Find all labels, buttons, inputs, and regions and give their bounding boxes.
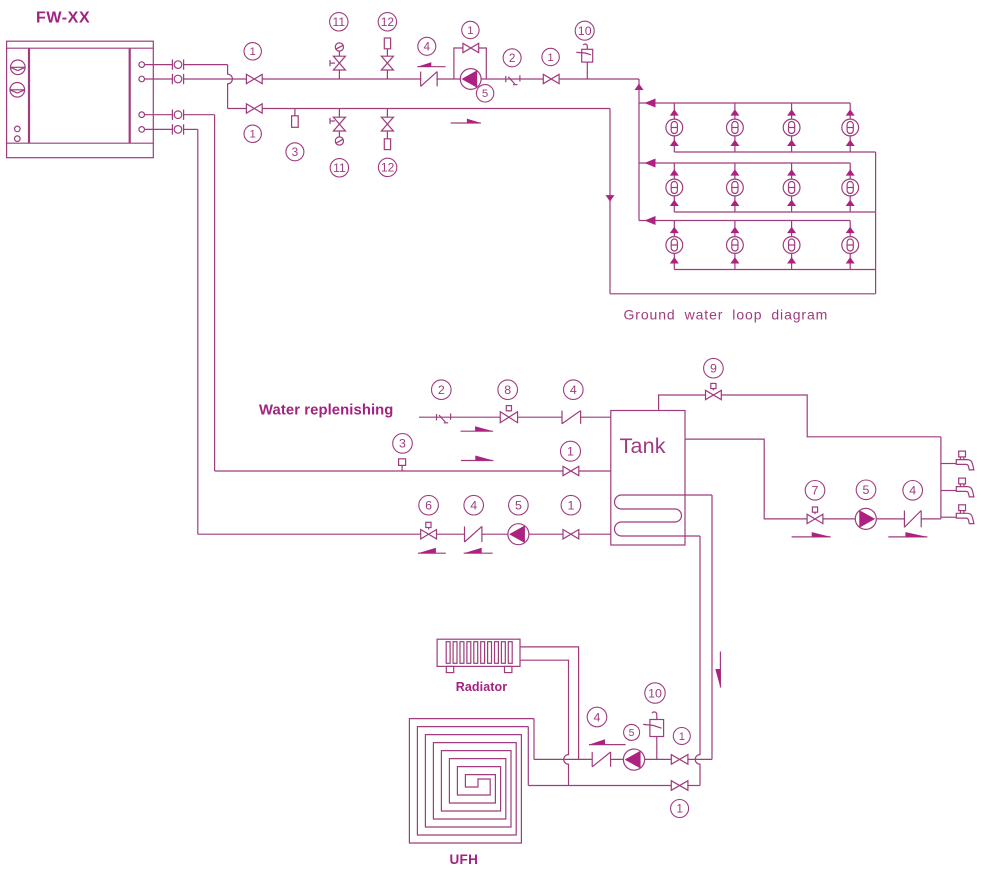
label 10 top	[575, 21, 594, 40]
valve 1 on upper pipe	[246, 74, 262, 83]
borehole heat exchanger row 2 col 3	[783, 163, 800, 212]
svg-text:1: 1	[467, 25, 473, 37]
valve 1 on lower pipe	[246, 104, 262, 113]
label 1 pump pipe	[561, 495, 581, 515]
svg-text:11: 11	[333, 15, 346, 29]
motorized valve 6	[421, 522, 437, 539]
borehole heat exchanger row 2 col 2	[727, 163, 744, 212]
label 2 replenishing	[432, 380, 452, 400]
flow arrow right on sensor pipe	[461, 456, 493, 461]
check valve 4 replenishing	[562, 411, 581, 424]
floor supply pipe y=759.4	[534, 758, 712, 760]
ground loop row 1 collector pipe	[674, 151, 875, 153]
flexible joint 2 on top pipe	[506, 75, 520, 84]
gauge dial 2 inside unit	[10, 83, 25, 98]
svg-text:4: 4	[909, 484, 916, 498]
svg-text:1: 1	[250, 46, 256, 58]
label 1 floor return	[671, 800, 689, 818]
sensor 3 on pipe	[399, 459, 406, 471]
borehole heat exchanger row 1 col 3	[783, 103, 800, 152]
tank body	[611, 411, 685, 546]
svg-text:1: 1	[567, 444, 574, 458]
borehole heat exchanger row 3 col 1	[666, 221, 683, 270]
faucet 1	[956, 451, 974, 470]
pump 5 on top pipe	[460, 69, 481, 90]
UFH supply connection down to floor supply pipe	[533, 719, 535, 760]
floor return pipe y=785.5	[528, 785, 700, 787]
svg-text:1: 1	[567, 498, 574, 512]
svg-text:4: 4	[470, 498, 477, 512]
heat pump unit FW-XX title	[36, 9, 90, 26]
svg-text:2: 2	[509, 52, 516, 65]
up arrow on supply riser	[635, 84, 644, 90]
safety relief valve 10 on top pipe	[576, 44, 592, 79]
svg-text:3: 3	[399, 437, 406, 451]
borehole heat exchanger row 1 col 4	[842, 103, 859, 152]
borehole heat exchanger row 1 col 2	[727, 103, 744, 152]
ground loop row 3 collector pipe	[674, 269, 875, 271]
svg-text:12: 12	[381, 161, 395, 175]
flow arrow left above check valve	[417, 62, 445, 66]
indicator circle small 1	[14, 126, 20, 132]
svg-text:5: 5	[515, 498, 522, 512]
union coupling on port 3	[172, 110, 183, 120]
label 5 floor	[624, 724, 640, 740]
label 4 pump pipe	[464, 495, 484, 515]
ground loop row 2 collector pipe	[674, 211, 875, 213]
wire top pipe y=79 segment to check valve	[262, 78, 421, 80]
svg-text:7: 7	[812, 484, 819, 498]
svg-text:Water replenishing: Water replenishing	[259, 403, 393, 419]
port 4 of heat pump	[139, 127, 173, 133]
svg-text:1: 1	[250, 129, 256, 141]
wire top pipe y=79 segment valve 1 to ground loop corner	[559, 78, 639, 80]
tap branch 1	[941, 463, 956, 465]
flow arrow left on floor supply	[589, 739, 626, 744]
label 1 floor supply	[673, 728, 690, 745]
check valve 4 on pump pipe	[465, 526, 482, 542]
under floor heating spiral UFH	[409, 719, 534, 843]
svg-text:UFH: UFH	[449, 852, 478, 867]
sensor pipe from port3 riser to tank	[215, 470, 611, 472]
radiator caption	[456, 680, 508, 694]
flow arrow right 1 tap circuit	[792, 532, 831, 537]
valve 1 on floor supply	[671, 755, 688, 765]
union coupling on port 4	[172, 124, 183, 134]
ground loop right distribution riser	[875, 152, 877, 294]
tank hot water outlet pipe to tap circuit	[685, 439, 941, 519]
caption water replenishing	[259, 403, 393, 419]
svg-text:Radiator: Radiator	[456, 680, 508, 694]
check valve 4 on top pipe	[421, 72, 438, 87]
tap branch 2	[941, 490, 956, 492]
port 3 of heat pump	[139, 112, 173, 118]
label 4 top	[418, 37, 436, 55]
ground loop left downcomer riser	[609, 109, 611, 294]
label 11 top	[330, 13, 348, 31]
tank caption	[620, 434, 666, 458]
pump 5 on floor supply	[623, 749, 644, 770]
left arrow on row 1 header	[645, 99, 656, 108]
gauge dial 1 inside unit	[10, 60, 25, 75]
label 2 top	[503, 49, 521, 67]
label 12 top	[378, 13, 396, 31]
wire port1 to vertical drop with jump over return pipe	[184, 65, 233, 109]
vent valve 12 below return pipe	[381, 109, 393, 150]
label 4 tap circuit	[903, 481, 923, 501]
svg-text:4: 4	[570, 383, 577, 397]
ground loop supply riser from corner	[638, 79, 640, 221]
svg-text:10: 10	[648, 686, 662, 700]
svg-text:6: 6	[425, 498, 432, 512]
union coupling on port 2	[172, 74, 183, 84]
ground loop row 1 header pipe	[639, 102, 850, 104]
svg-text:4: 4	[424, 40, 431, 53]
flexible joint 2 on replenishing pipe	[437, 414, 451, 423]
gauge cock 11 below return pipe	[330, 109, 345, 146]
coil supply riser down to floor circuit	[711, 495, 713, 759]
label 4 replenishing	[564, 380, 584, 400]
svg-text:4: 4	[594, 710, 601, 724]
check valve 4 on floor supply	[592, 752, 610, 767]
svg-text:9: 9	[710, 361, 717, 375]
safety relief valve 10 on floor supply	[643, 712, 664, 759]
ground loop row 2 header pipe	[639, 162, 850, 164]
tap branch 3	[941, 516, 956, 518]
svg-text:Ground water loop diagram: Ground water loop diagram	[624, 307, 829, 323]
immersion sensor 3 on return pipe	[292, 109, 299, 128]
label 1 mid	[542, 48, 559, 65]
svg-text:2: 2	[438, 383, 445, 397]
faucet 2	[956, 478, 974, 497]
left arrow on row 3 header	[645, 216, 656, 225]
valve 1 mid top pipe	[543, 74, 559, 83]
valve 1 on pump pipe	[563, 530, 579, 539]
port 2 of heat pump	[139, 76, 173, 82]
left arrow on row 2 header	[645, 159, 656, 168]
wire port4 riser down to pump pipe	[184, 129, 198, 534]
motorized valve 9	[706, 383, 722, 399]
tank internal heat exchanger coil	[615, 495, 712, 536]
check valve 4 on tap circuit	[904, 511, 921, 528]
faucet 3	[956, 505, 974, 524]
label 3 top	[286, 143, 304, 161]
port 1 of heat pump	[139, 62, 173, 68]
svg-text:1: 1	[676, 803, 683, 816]
valve 1 on floor return	[671, 781, 688, 791]
ground loop row 3 header pipe	[639, 220, 850, 222]
label 3 middle	[393, 434, 413, 454]
pump pipe from port4 riser to tank	[198, 533, 611, 535]
flow arrow right below return pipe	[451, 119, 481, 123]
label 1 bypass	[462, 21, 479, 38]
pump 5 on pump pipe	[508, 524, 529, 545]
radiator body	[437, 639, 520, 672]
indicator circle small 2	[14, 136, 20, 142]
flow arrow left 2 on pump pipe	[464, 548, 493, 554]
heat pump unit body	[7, 41, 154, 158]
wire port3 riser down to sensor pipe	[184, 115, 215, 471]
label 5 tap circuit	[856, 480, 876, 500]
label 8	[498, 380, 518, 400]
svg-text:10: 10	[578, 24, 592, 38]
caption ground water loop diagram	[624, 307, 829, 323]
union coupling on port 1	[172, 59, 183, 69]
return pipe y=108.5 to ground loop riser	[262, 108, 610, 110]
label 12 bottom	[378, 158, 396, 176]
label 4 floor	[587, 707, 607, 727]
borehole heat exchanger row 3 col 3	[783, 221, 800, 270]
UFH caption	[449, 852, 478, 867]
water replenishing pipe	[419, 416, 611, 418]
borehole heat exchanger row 3 col 4	[842, 221, 859, 270]
svg-text:5: 5	[863, 483, 870, 497]
ground loop bottom distribution pipe	[610, 293, 876, 295]
svg-text:3: 3	[292, 146, 299, 159]
label 10 floor	[645, 683, 665, 703]
label 5 top	[476, 85, 493, 102]
flow arrow left 1 on pump pipe	[418, 548, 446, 554]
tank top pipe to valve 9 and tap manifold	[659, 395, 941, 437]
tap manifold column	[940, 437, 942, 519]
coil return riser with jump over supply pipe	[695, 536, 700, 786]
borehole heat exchanger row 3 col 2	[727, 221, 744, 270]
label 6	[419, 495, 439, 515]
svg-text:5: 5	[482, 88, 488, 100]
flow arrow right 2 tap circuit	[888, 532, 927, 537]
label 1 upper	[244, 43, 261, 60]
pump 5 on tap circuit	[855, 508, 876, 529]
label 7	[805, 481, 825, 501]
radiator supply pipe	[520, 647, 579, 760]
flow arrow right on replenishing pipe	[461, 426, 494, 431]
svg-text:1: 1	[679, 731, 685, 743]
svg-text:11: 11	[333, 161, 346, 175]
borehole heat exchanger row 2 col 1	[666, 163, 683, 212]
label 5 pump pipe	[509, 495, 529, 515]
label 9	[704, 358, 724, 378]
flow arrow down on coil supply riser	[715, 652, 720, 688]
label 1 tank inlet	[561, 441, 581, 461]
borehole heat exchanger row 2 col 4	[842, 163, 859, 212]
svg-text:FW-XX: FW-XX	[36, 9, 90, 26]
label 1 lower	[244, 125, 261, 142]
wire top pipe y=79 segment check valve to valve 1	[436, 78, 543, 80]
svg-text:5: 5	[629, 728, 635, 739]
svg-text:1: 1	[547, 52, 553, 64]
solenoid valve 8	[500, 406, 517, 423]
svg-text:Tank: Tank	[620, 434, 666, 458]
svg-text:12: 12	[381, 15, 395, 29]
down arrow on left downcomer	[606, 195, 615, 201]
motorized valve 7	[807, 507, 823, 524]
gauge cock 11 on top pipe	[330, 43, 345, 79]
label 11 bottom	[330, 159, 348, 177]
borehole heat exchanger row 1 col 1	[666, 103, 683, 152]
wire port2 to valve 1 (supply header)	[184, 78, 247, 80]
radiator return pipe with jump over supply pipe	[520, 660, 569, 785]
vent valve 12 on top pipe	[381, 38, 393, 79]
valve 1 at tank inlet	[563, 466, 579, 475]
wire lower stub to valve 1 lower	[228, 108, 247, 110]
UFH return connection down to floor return pipe	[527, 727, 529, 786]
svg-text:8: 8	[504, 383, 511, 397]
pump bypass loop with valve 1	[454, 43, 486, 79]
